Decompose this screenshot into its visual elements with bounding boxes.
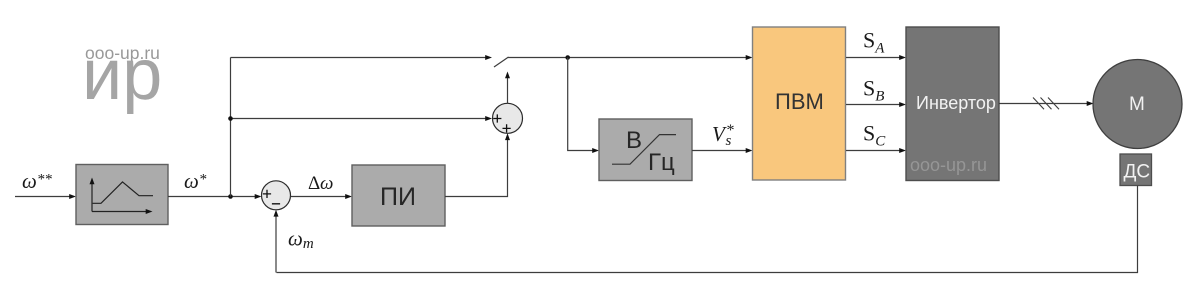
PWM block: [753, 27, 846, 180]
speed sensor DS: [1120, 154, 1152, 186]
ramp generator block: [76, 165, 168, 225]
wire omega*: [168, 196, 256, 198]
wire top branch: [231, 57, 487, 59]
wire omega_m feedback up: [275, 216, 277, 273]
svg-text:ир: ир: [82, 35, 162, 115]
svg-text:ДС: ДС: [1124, 162, 1151, 183]
node dot omega*: [228, 194, 233, 199]
svg-text:М: М: [1129, 94, 1145, 115]
node dot top: [565, 55, 570, 60]
wire sum output up to switch: [507, 77, 509, 103]
wire to V/Hz block: [568, 58, 594, 151]
PI controller block: [352, 165, 445, 226]
svg-text:ω: ω: [320, 173, 333, 194]
svg-text:Инвертор: Инвертор: [916, 93, 996, 113]
switch blade: [494, 57, 509, 67]
wire PI output to upper sum: [445, 139, 508, 197]
wire S_A: [846, 57, 901, 59]
wire delta-omega: [291, 196, 347, 198]
wire feedback: [277, 186, 1138, 273]
wire S_C: [846, 150, 901, 152]
svg-text:ooo-up.ru: ooo-up.ru: [910, 155, 987, 175]
motor M: [1093, 60, 1182, 149]
inverter block: [906, 27, 999, 181]
svg-text:Гц: Гц: [648, 149, 675, 176]
svg-text:*: *: [727, 122, 735, 139]
wire after switch: [508, 57, 747, 59]
three-phase slashes: [1033, 98, 1044, 110]
wire S_B: [846, 104, 901, 106]
wire inverter to motor: [999, 103, 1088, 105]
subtract junction U3 (lower): [262, 181, 291, 210]
svg-text:Δ: Δ: [308, 173, 320, 194]
summing junction U2 (upper): [493, 103, 523, 133]
svg-text:В: В: [626, 127, 642, 154]
wire second branch: [231, 118, 487, 120]
wire Vs*: [692, 150, 747, 152]
svg-text:ПИ: ПИ: [380, 183, 416, 211]
junction dot second branch: [228, 116, 233, 121]
V/Hz block: [599, 119, 692, 181]
wire branch up: [230, 58, 232, 197]
wire input: [15, 196, 70, 198]
svg-text:ПВМ: ПВМ: [775, 89, 824, 114]
